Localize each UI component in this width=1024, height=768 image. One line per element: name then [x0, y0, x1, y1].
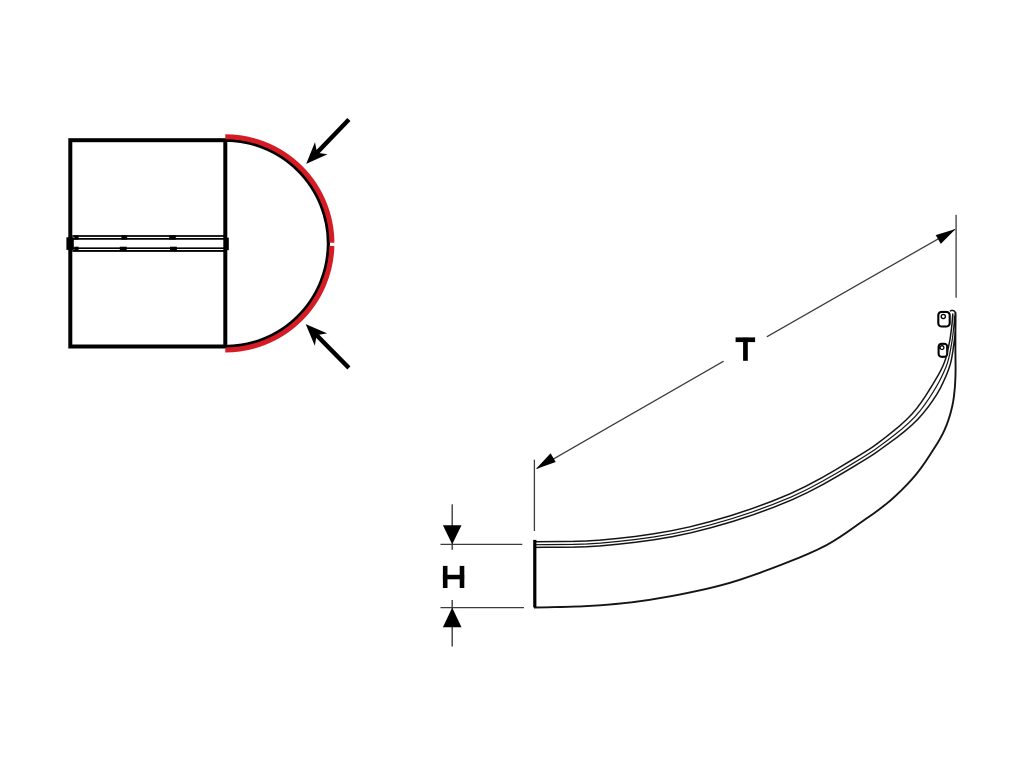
leaf joint band line 3: [73, 247, 224, 249]
clip upper screw hole: [941, 314, 945, 318]
table body rectangle (plan view): [70, 140, 225, 346]
band tick top row mid-left: [121, 235, 127, 240]
H dimension bottom arrow line: [451, 600, 453, 647]
H dimension bottom extension line: [441, 607, 525, 609]
upper pointer arrowhead: [306, 142, 327, 164]
T dimension left extension line: [533, 460, 535, 531]
leaf joint band line 2: [73, 238, 224, 240]
apron top rim outer curve: [535, 314, 953, 542]
T dimension right extension line: [955, 215, 957, 298]
leaf joint band line 4: [73, 250, 224, 252]
T dimension left arrowhead: [536, 453, 556, 469]
upper pointer arrow shaft: [316, 120, 349, 154]
T dimension line right segment: [767, 229, 955, 336]
T dimension right arrowhead: [936, 229, 956, 244]
band right end cap: [224, 238, 229, 251]
apron top rim middle curve: [535, 316, 955, 545]
lower pointer arrow shaft: [316, 334, 349, 368]
H dimension top arrowhead: [443, 525, 462, 544]
apron left end edge: [533, 540, 536, 608]
H dimension bottom arrowhead: [443, 608, 462, 628]
mounting clip lower: [939, 344, 948, 357]
H dimension top extension line: [441, 543, 523, 545]
leaf joint band line 1: [73, 235, 224, 237]
mounting clip upper: [938, 312, 949, 327]
apron rim right end cap: [950, 310, 955, 313]
band tick top row near left: [74, 235, 78, 240]
H dimension top arrow line: [451, 504, 453, 550]
band left end cap: [66, 237, 73, 250]
apron top rim inner curve: [535, 314, 956, 548]
semicircular end black outline: [225, 140, 328, 346]
red edge banding lower arc: [225, 246, 332, 350]
apron bottom and right outline: [534, 312, 956, 608]
H label (letter H as shapes): [443, 566, 464, 588]
band tick bottom row near left: [74, 247, 78, 252]
clip lower screw hole: [940, 346, 944, 350]
red edge banding upper arc: [225, 137, 332, 243]
band tick bottom row mid-left: [120, 247, 127, 252]
T label (letter T as shapes): [736, 337, 756, 360]
band tick top row mid-right: [169, 235, 176, 240]
lower pointer arrowhead: [306, 324, 328, 346]
band tick bottom row mid-right: [170, 247, 177, 252]
T dimension line left segment: [537, 361, 724, 468]
